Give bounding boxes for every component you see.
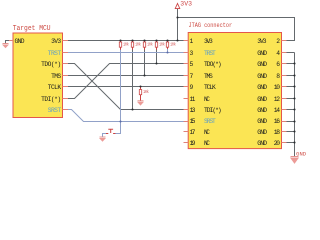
svg-text:NC: NC [204,96,210,103]
JTAG connector J1 box [188,33,281,149]
MCU pin TDO(*) stub [63,63,69,65]
pin stubs connector left (red) [184,41,189,143]
junction R6 on TCLK net [139,85,141,87]
wire SRST jumper drop blue [114,122,121,134]
MCU pin SRST stub [63,109,69,111]
svg-text:9: 9 [190,84,194,91]
junction R5 on TRST net [166,51,168,53]
junction R4 top on 3V3 rail [155,39,157,41]
MCU pin labels [15,38,62,114]
wire TRST row blue [68,52,184,54]
wire MCU TDO diagonal to connector pin13 TDI [68,64,184,110]
connector pin 7 TMS stub [184,75,189,77]
svg-text:19: 19 [190,140,196,147]
svg-text:7: 7 [190,73,194,80]
junction R5 top on 3V3 rail [166,39,168,41]
wire TMS row [68,75,184,77]
svg-text:10k: 10k [170,43,176,48]
svg-text:13: 13 [190,107,196,114]
svg-text:GND: GND [257,61,267,68]
connector pin 18 GND stub [282,131,287,133]
ground below R6 pulldown [137,101,144,106]
svg-text:SRST: SRST [48,107,62,114]
resistor R3 10k (TMS pullup) [143,41,153,50]
junction 3V3 drop on rail [176,39,178,41]
connector pin 5 TDO stub [184,63,189,65]
junction GND bus pin10 [293,85,295,87]
pin stubs connector right (red) [282,41,287,143]
wire R3 vertical to TMS net [144,49,146,76]
junction GND bus pin18 [293,130,295,132]
junction dots black [119,16,295,143]
svg-text:GND: GND [257,84,267,91]
pin stubs MCU (red) [9,41,68,110]
wire GND stubs rows 4 to 20 [287,53,295,143]
power symbol 3V3 [175,0,192,8]
resistor R4 10k (TDO pullup) [155,41,165,50]
MCU pin TDI(*) stub [63,98,69,100]
resistor R1 10k (SRST pullup) [119,41,129,50]
wire R4 vertical to TDO net [156,49,158,64]
svg-text:3V3: 3V3 [257,38,267,45]
wire MCU TDI diagonal to connector pin5 TDO [68,64,184,99]
svg-text:TDO(*): TDO(*) [204,61,222,68]
svg-text:NC: NC [204,140,210,147]
wire 3V3 rail [68,40,188,42]
svg-text:10k: 10k [159,43,165,48]
svg-text:TDO(*): TDO(*) [41,61,61,68]
wire TCLK row [68,86,184,88]
connector pin 3 TRST stub [184,52,189,54]
svg-text:GND: GND [15,38,25,45]
svg-text:10k: 10k [123,43,129,48]
connector pin 13 TDI stub [184,109,189,111]
svg-text:10: 10 [274,84,280,91]
svg-text:NC: NC [204,129,210,136]
svg-text:15: 15 [190,118,196,125]
wires blue [68,49,184,137]
svg-text:14: 14 [274,107,280,114]
wires gray [6,9,295,157]
svg-text:3V3: 3V3 [204,38,213,45]
wire R2 vertical to TDI net [132,49,134,110]
connector pin 6 GND stub [282,63,287,65]
junction GND bus pin14 [293,108,295,110]
junction R4 on TDO net [155,62,157,64]
svg-text:1: 1 [190,38,194,45]
ground at SRST jumper [99,137,106,142]
svg-text:GND: GND [257,118,267,125]
jumper net-tie symbol on SRST ground leg [106,129,115,133]
svg-text:TRST: TRST [204,50,216,57]
MCU U1 box [13,33,63,118]
svg-text:GND: GND [257,107,267,114]
connector pin 4 GND stub [282,52,287,54]
junction R2 top on 3V3 rail [131,39,133,41]
svg-text:Target MCU: Target MCU [13,25,51,33]
junction R3 on TMS net [143,74,145,76]
junction GND bus pin12 [293,97,295,99]
connector pin 11 NC stub [184,98,189,100]
resistor R5 10k (TRST pullup) [166,41,176,53]
svg-text:TMS: TMS [204,73,213,80]
junction R1 on SRST net [119,120,121,122]
MCU pin 3V3 stub [63,40,69,42]
svg-text:GND: GND [296,151,306,157]
connector pin names left [204,38,222,147]
connector pin 1 3V3 stub [184,40,189,42]
svg-text:16: 16 [274,118,280,125]
connector pin numbers left [190,38,196,147]
connector pin 2 3V3 stub [282,40,287,42]
connector pin 20 GND stub [282,142,287,144]
svg-text:18: 18 [274,129,280,136]
svg-text:3: 3 [190,50,194,57]
connector pin 10 GND stub [282,86,287,88]
svg-text:10k: 10k [135,43,141,48]
connector pin 14 GND stub [282,109,287,111]
connector pin 15 SRST stub [184,121,189,123]
junction GND bus pin16 [293,120,295,122]
MCU pin GND stub [9,40,13,42]
junction dots blue [119,51,168,122]
svg-text:TCLK: TCLK [204,84,216,91]
junction GND bus pin6 [293,62,295,64]
resistor R2 10k (TDI pullup) [131,41,141,50]
connector pin numbers right [274,38,280,147]
connector pin names right [257,38,267,147]
connector pin 9 TCLK stub [184,86,189,88]
svg-text:2: 2 [276,38,280,45]
svg-text:TDI(*): TDI(*) [204,107,222,114]
junction 3V3 top tee [176,16,178,18]
connector pin 8 GND stub [282,75,287,77]
junction R2 on TDI net [131,108,133,110]
svg-text:5: 5 [190,61,194,68]
junction R3 top on 3V3 rail [143,39,145,41]
connector pin 17 NC stub [184,131,189,133]
MCU pin TCLK stub [63,86,69,88]
svg-text:3V3: 3V3 [180,0,192,7]
svg-text:GND: GND [257,96,267,103]
svg-text:GND: GND [257,140,267,147]
svg-text:6: 6 [276,61,280,68]
svg-text:TMS: TMS [51,73,61,80]
svg-text:3V3: 3V3 [51,38,61,45]
wire MCU GND to ground [6,41,10,44]
svg-text:10k: 10k [147,43,153,48]
wire SRST dogleg blue [68,110,184,122]
wire 3V3 top horizontal to connector pin2 [178,18,295,41]
svg-text:8: 8 [276,73,280,80]
svg-text:11: 11 [190,96,196,103]
MCU pin TMS stub [63,75,69,77]
connector pin 16 GND stub [282,121,287,123]
svg-text:TDI(*): TDI(*) [41,96,61,103]
wire GND bus vertical [294,53,296,157]
connector pin 12 GND stub [282,98,287,100]
ground at MCU GND pin [2,44,9,49]
ground arrow bottom right [290,151,306,164]
svg-text:GND: GND [257,73,267,80]
svg-text:SRST: SRST [204,118,216,125]
svg-text:TCLK: TCLK [48,84,62,91]
connector pin 19 NC stub [184,142,189,144]
svg-text:10k: 10k [143,90,149,95]
junction GND bus pin20 [293,141,295,143]
MCU pin TRST stub [63,52,69,54]
wire R1 pullup vertical blue (SRST net) [120,49,122,122]
wire jumper to ground blue [103,134,108,138]
svg-text:4: 4 [276,50,280,57]
svg-text:GND: GND [257,129,267,136]
svg-text:17: 17 [190,129,196,136]
svg-text:20: 20 [274,140,280,147]
wire 3V3 power drop vertical [177,9,179,41]
svg-text:GND: GND [257,50,267,57]
svg-text:12: 12 [274,96,280,103]
junction GND bus pin8 [293,74,295,76]
resistor R6 10k (TCLK pulldown) [139,87,149,101]
junction R1 top on 3V3 rail [119,39,121,41]
svg-text:JTAG connector: JTAG connector [189,22,233,29]
svg-text:TRST: TRST [48,50,62,57]
